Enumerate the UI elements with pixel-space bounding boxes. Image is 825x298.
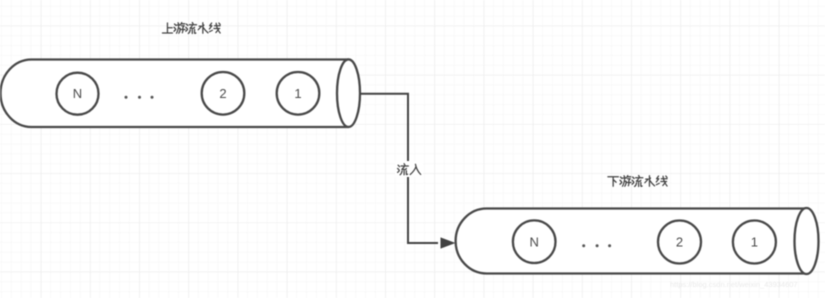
circle 2 upstream bbox=[202, 72, 245, 115]
connector arrow upstream -> downstream bbox=[360, 94, 438, 243]
title 上游流水线 bbox=[162, 23, 220, 34]
upstream pipeline body bbox=[1, 60, 349, 128]
downstream pipeline right cap ellipse bbox=[795, 208, 819, 274]
dots upstream bbox=[125, 96, 154, 99]
upstream pipeline right cap ellipse bbox=[337, 59, 360, 127]
svg-text:1: 1 bbox=[751, 235, 758, 250]
circle N upstream bbox=[57, 73, 99, 115]
label 流入 bbox=[398, 164, 421, 175]
label background 流入 bbox=[395, 161, 423, 177]
svg-text:2: 2 bbox=[219, 86, 226, 101]
circle 1 downstream bbox=[733, 221, 776, 264]
circle 1 upstream bbox=[277, 72, 320, 115]
svg-text:N: N bbox=[73, 86, 82, 101]
svg-text:N: N bbox=[530, 235, 539, 250]
title 下游流水线 bbox=[608, 176, 667, 187]
svg-text:https://blog.csdn.net/weixin_4: https://blog.csdn.net/weixin_43934607 bbox=[670, 280, 798, 289]
svg-text:1: 1 bbox=[294, 86, 301, 101]
dots downstream bbox=[582, 244, 611, 247]
circle 2 downstream bbox=[658, 221, 701, 264]
downstream pipeline body bbox=[456, 209, 807, 274]
arrowhead bbox=[441, 237, 456, 248]
svg-text:2: 2 bbox=[676, 235, 683, 250]
circle N downstream bbox=[513, 220, 556, 263]
